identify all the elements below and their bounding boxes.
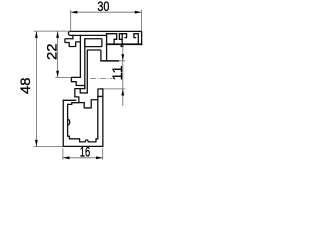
box right wall tab <box>98 89 103 100</box>
arrowheads <box>35 11 141 159</box>
svg-text:16: 16 <box>80 143 91 159</box>
svg-text:22: 22 <box>44 43 60 60</box>
top flange inner webs and T-slots <box>106 34 138 44</box>
hollow chamber A <box>85 39 102 89</box>
stem serrations <box>71 77 87 102</box>
svg-text:11: 11 <box>109 65 125 80</box>
screw boss bump on inner left wall <box>68 119 70 125</box>
extension lines <box>34 10 142 160</box>
dimension line 22 <box>57 31 59 77</box>
bottom box outline <box>63 89 103 147</box>
dimension line 30 <box>71 11 142 13</box>
svg-text:30: 30 <box>97 0 109 14</box>
dimension line 11 <box>122 46 124 107</box>
profile top flange outline <box>68 31 141 44</box>
box inner bottom with screw flute <box>69 139 97 142</box>
hollow chamber B and web <box>87 34 118 93</box>
interior screw channel <box>72 100 98 108</box>
left clip hook <box>65 35 81 77</box>
dimension line 16 <box>63 157 103 159</box>
box inner walls <box>68 100 98 139</box>
svg-text:48: 48 <box>17 77 33 94</box>
dimension line 48 <box>35 31 37 146</box>
top flange underside tooth <box>121 45 124 47</box>
center line <box>90 78 112 80</box>
